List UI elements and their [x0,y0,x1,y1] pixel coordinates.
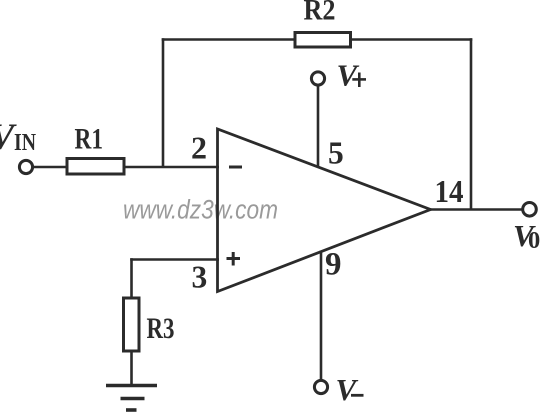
op-amp non-inverting marker [227,257,241,260]
resistor R2 [295,33,351,48]
wire V+ to op-amp [317,85,320,167]
ground [106,384,157,387]
wire top to R2 [162,38,294,41]
resistor R3 [124,298,140,351]
svg-text:14: 14 [435,174,464,209]
svg-text:IN: IN [14,130,37,156]
terminal V0 [523,203,537,217]
svg-text:V: V [337,58,360,93]
terminal VIN [19,160,32,173]
svg-text:V: V [336,372,359,407]
terminal V- [314,380,327,393]
wire right vertical [470,38,473,209]
svg-text:3: 3 [192,260,208,295]
wire output [431,208,524,211]
svg-text:9: 9 [325,246,342,282]
wire R3 to ground [130,352,133,386]
wire pin3 horizontal [130,258,219,261]
svg-text:R3: R3 [147,312,175,345]
svg-text:www.dz3w.com: www.dz3w.com [123,195,278,225]
svg-text:2: 2 [191,131,207,166]
op-amp U1 [218,129,431,292]
wire feedback vertical [162,38,165,167]
wire R1 to inverting node [124,166,219,169]
svg-text:0: 0 [528,227,540,254]
resistor R1 [67,159,124,175]
wire node to R3 [130,258,133,297]
svg-text:R2: R2 [304,0,336,27]
wire R2 to corner [351,38,472,41]
terminal V+ [311,72,324,85]
op-amp inverting marker [229,166,242,169]
wire pin9 to V- [320,251,323,381]
wire input [33,166,67,169]
svg-text:R1: R1 [75,123,104,156]
svg-text:5: 5 [328,136,344,171]
